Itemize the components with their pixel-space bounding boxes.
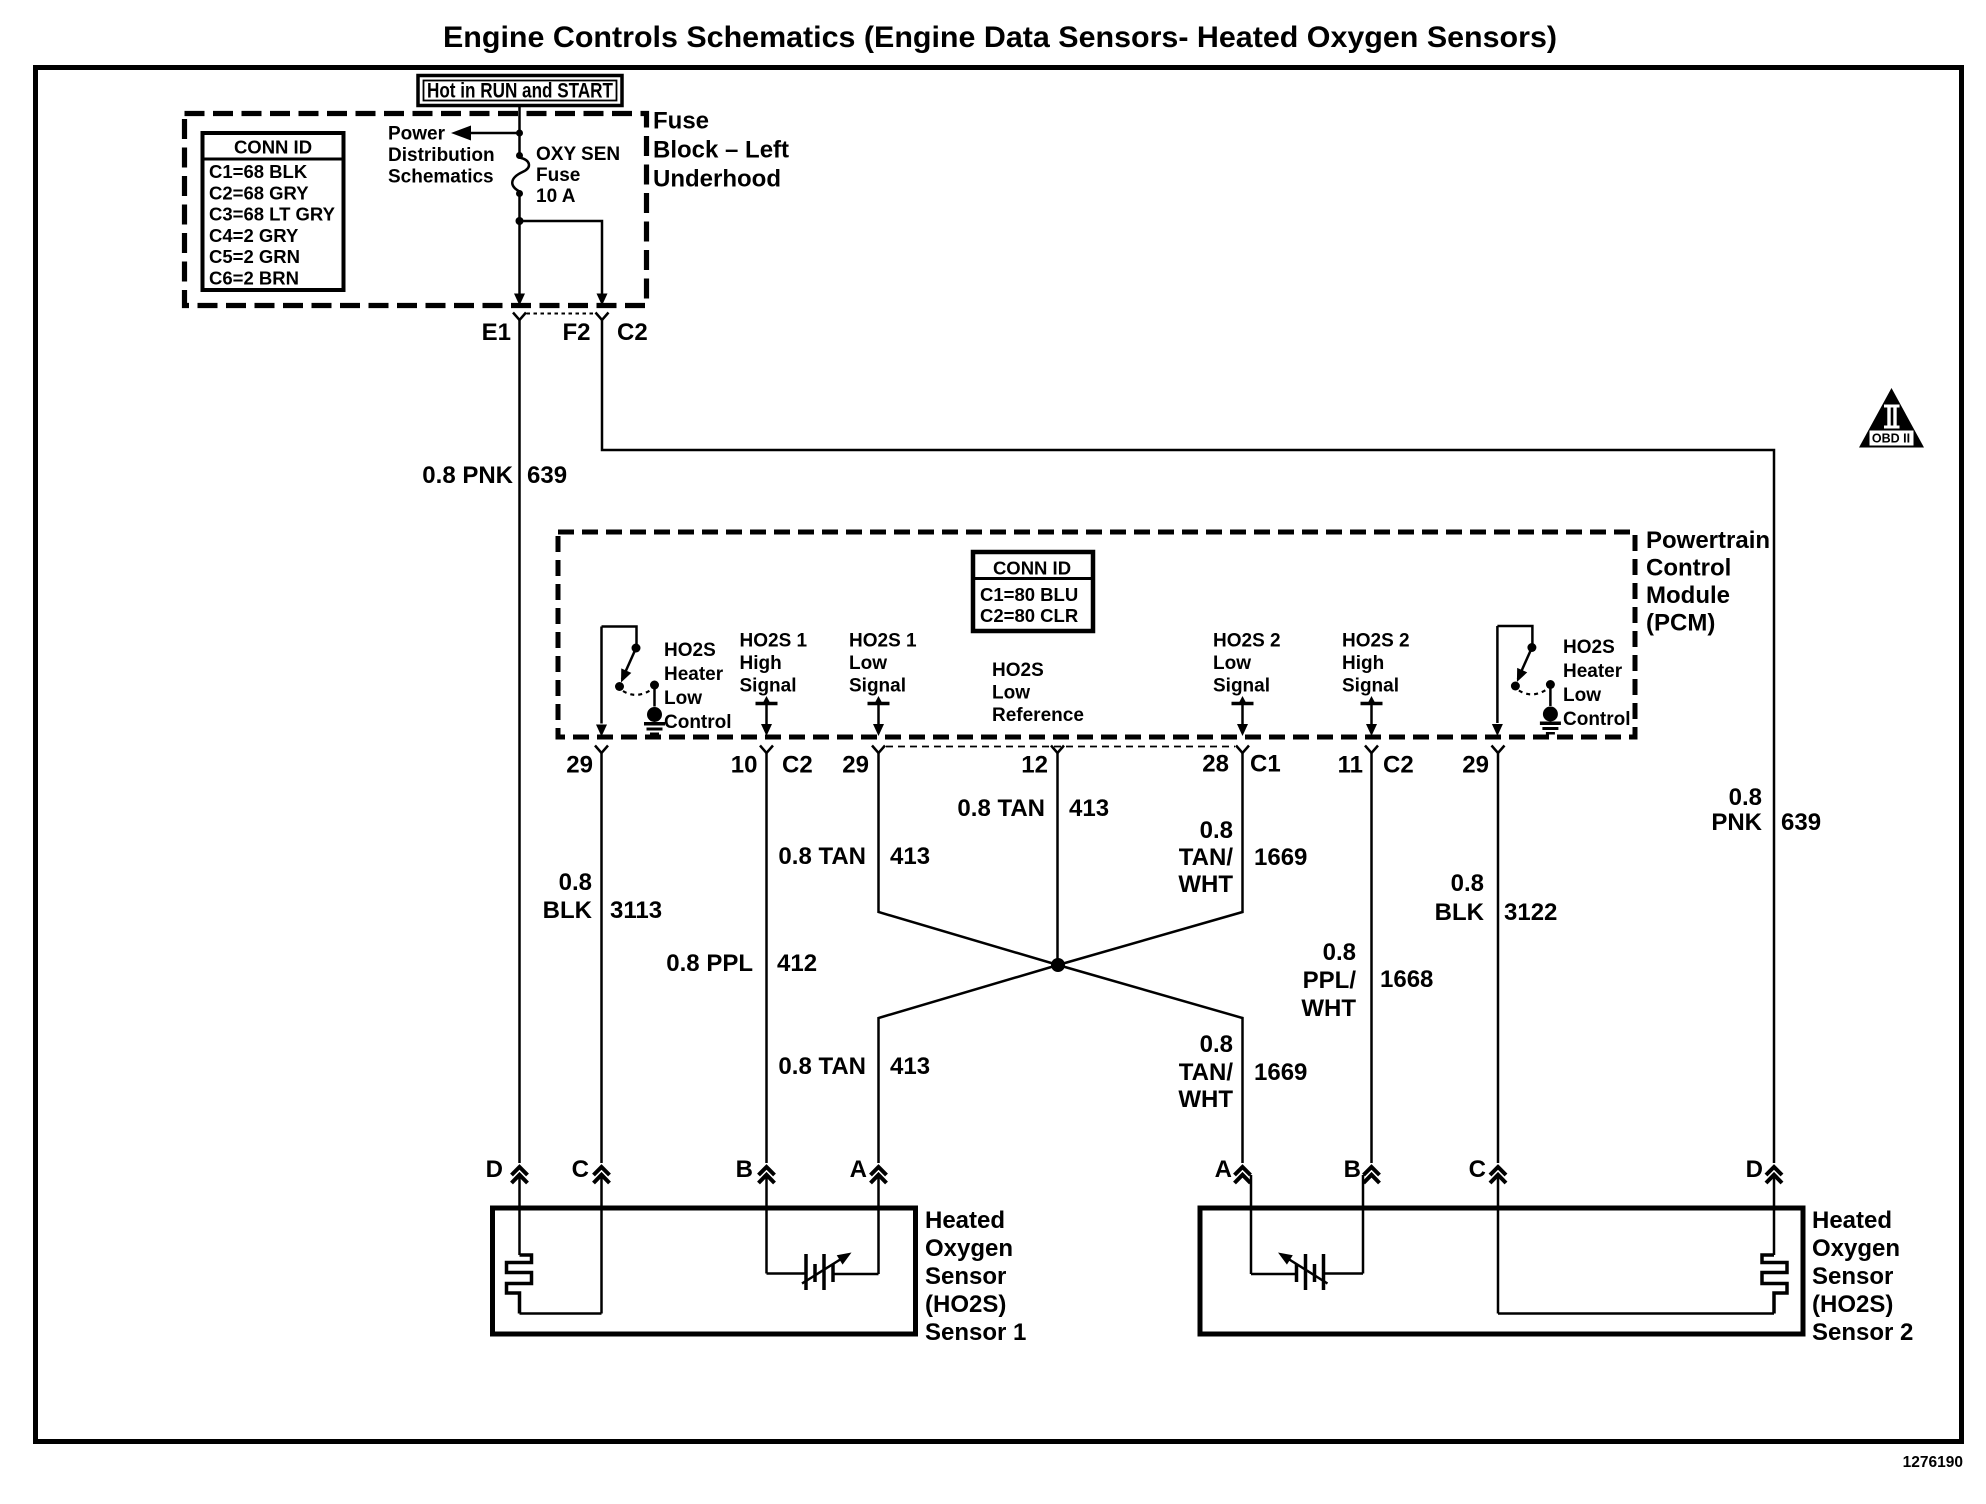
- svg-text:3122: 3122: [1504, 899, 1557, 926]
- svg-text:Low: Low: [1213, 653, 1251, 674]
- svg-text:Heated: Heated: [925, 1207, 1005, 1234]
- svg-text:HO2S: HO2S: [664, 640, 716, 661]
- svg-text:HO2S 2: HO2S 2: [1342, 631, 1410, 652]
- svg-text:C2: C2: [617, 319, 648, 346]
- svg-text:B: B: [736, 1156, 753, 1183]
- svg-text:C1: C1: [1250, 751, 1281, 778]
- svg-text:A: A: [1215, 1156, 1232, 1183]
- svg-text:High: High: [1342, 653, 1384, 674]
- svg-text:TAN/: TAN/: [1179, 844, 1234, 871]
- svg-text:C1=68 BLK: C1=68 BLK: [209, 161, 308, 182]
- svg-text:11: 11: [1338, 752, 1363, 779]
- svg-text:639: 639: [1781, 809, 1821, 836]
- svg-text:PPL/: PPL/: [1303, 967, 1357, 994]
- svg-text:0.8 PPL: 0.8 PPL: [666, 950, 753, 977]
- svg-text:BLK: BLK: [1435, 899, 1485, 926]
- svg-text:Fuse: Fuse: [536, 165, 580, 186]
- svg-text:Block – Left: Block – Left: [653, 137, 789, 164]
- svg-text:C: C: [572, 1156, 589, 1183]
- svg-text:C1=80 BLU: C1=80 BLU: [980, 584, 1078, 605]
- svg-text:0.8: 0.8: [1323, 939, 1356, 966]
- svg-text:Signal: Signal: [740, 676, 797, 697]
- svg-text:28: 28: [1202, 751, 1229, 778]
- svg-text:10: 10: [731, 752, 758, 779]
- svg-text:C3=68 LT GRY: C3=68 LT GRY: [209, 204, 336, 225]
- svg-text:1276190: 1276190: [1903, 1454, 1963, 1471]
- svg-text:F2: F2: [562, 319, 590, 346]
- svg-text:Heated: Heated: [1812, 1207, 1892, 1234]
- svg-text:413: 413: [890, 1053, 930, 1080]
- svg-text:OBD II: OBD II: [1872, 432, 1910, 446]
- svg-text:0.8 TAN: 0.8 TAN: [778, 843, 866, 870]
- svg-text:0.8: 0.8: [559, 869, 592, 896]
- svg-text:Low: Low: [1563, 685, 1601, 706]
- svg-text:D: D: [486, 1156, 503, 1183]
- svg-text:413: 413: [890, 843, 930, 870]
- svg-text:CONN ID: CONN ID: [993, 558, 1071, 579]
- svg-text:HO2S: HO2S: [992, 660, 1044, 681]
- svg-text:OXY SEN: OXY SEN: [536, 144, 620, 165]
- svg-text:Signal: Signal: [849, 676, 906, 697]
- svg-text:C2=68 GRY: C2=68 GRY: [209, 182, 309, 203]
- svg-text:BLK: BLK: [543, 897, 593, 924]
- svg-text:Low: Low: [849, 653, 887, 674]
- svg-text:Control: Control: [664, 712, 732, 733]
- svg-text:412: 412: [777, 950, 817, 977]
- svg-text:C: C: [1469, 1156, 1486, 1183]
- svg-text:TAN/: TAN/: [1179, 1059, 1234, 1086]
- svg-text:(HO2S): (HO2S): [925, 1291, 1006, 1318]
- svg-text:HO2S: HO2S: [1563, 637, 1615, 658]
- svg-text:0.8: 0.8: [1729, 784, 1762, 811]
- svg-text:Sensor 2: Sensor 2: [1812, 1319, 1913, 1346]
- svg-text:C4=2 GRY: C4=2 GRY: [209, 225, 299, 246]
- svg-text:Signal: Signal: [1213, 676, 1270, 697]
- svg-text:0.8: 0.8: [1200, 1031, 1233, 1058]
- svg-text:C2=80 CLR: C2=80 CLR: [980, 605, 1078, 626]
- svg-text:0.8 TAN: 0.8 TAN: [778, 1053, 866, 1080]
- svg-text:HO2S 1: HO2S 1: [849, 631, 917, 652]
- svg-text:C2: C2: [782, 752, 813, 779]
- svg-text:Reference: Reference: [992, 705, 1084, 726]
- svg-text:HO2S 1: HO2S 1: [740, 631, 808, 652]
- svg-text:0.8: 0.8: [1200, 817, 1233, 844]
- svg-text:(HO2S): (HO2S): [1812, 1291, 1893, 1318]
- svg-text:639: 639: [527, 462, 567, 489]
- svg-text:413: 413: [1069, 795, 1109, 822]
- svg-text:High: High: [740, 653, 782, 674]
- svg-text:Sensor 1: Sensor 1: [925, 1319, 1026, 1346]
- svg-text:Power: Power: [388, 124, 446, 145]
- svg-text:C5=2 GRN: C5=2 GRN: [209, 246, 300, 267]
- svg-text:Sensor: Sensor: [1812, 1263, 1893, 1290]
- svg-text:Heater: Heater: [664, 664, 724, 685]
- svg-text:B: B: [1344, 1156, 1361, 1183]
- svg-text:WHT: WHT: [1301, 995, 1356, 1022]
- svg-text:Signal: Signal: [1342, 676, 1399, 697]
- svg-text:0.8 TAN: 0.8 TAN: [957, 795, 1045, 822]
- svg-text:0.8: 0.8: [1451, 870, 1484, 897]
- svg-text:29: 29: [1462, 752, 1489, 779]
- svg-text:29: 29: [566, 752, 593, 779]
- svg-text:Fuse: Fuse: [653, 108, 709, 135]
- svg-text:(PCM): (PCM): [1646, 610, 1715, 637]
- svg-text:0.8 PNK: 0.8 PNK: [422, 462, 513, 489]
- svg-text:Control: Control: [1646, 555, 1731, 582]
- svg-text:Hot in RUN and START: Hot in RUN and START: [427, 80, 613, 103]
- svg-text:Control: Control: [1563, 709, 1631, 730]
- svg-text:Low: Low: [664, 688, 702, 709]
- svg-text:10 A: 10 A: [536, 186, 576, 207]
- svg-text:Low: Low: [992, 683, 1030, 704]
- svg-text:C6=2 BRN: C6=2 BRN: [209, 268, 299, 289]
- svg-text:E1: E1: [482, 319, 511, 346]
- svg-text:Engine Controls Schematics (En: Engine Controls Schematics (Engine Data …: [443, 21, 1557, 54]
- svg-text:D: D: [1746, 1156, 1763, 1183]
- svg-text:PNK: PNK: [1711, 809, 1762, 836]
- svg-text:Heater: Heater: [1563, 661, 1623, 682]
- svg-text:Powertrain: Powertrain: [1646, 527, 1770, 554]
- svg-text:12: 12: [1021, 752, 1048, 779]
- svg-text:1669: 1669: [1254, 1059, 1307, 1086]
- svg-text:1668: 1668: [1380, 966, 1433, 993]
- svg-text:29: 29: [842, 752, 869, 779]
- svg-text:A: A: [850, 1156, 867, 1183]
- svg-text:C2: C2: [1383, 752, 1414, 779]
- svg-text:HO2S 2: HO2S 2: [1213, 631, 1281, 652]
- svg-text:3113: 3113: [610, 897, 662, 924]
- svg-text:Oxygen: Oxygen: [925, 1235, 1013, 1262]
- svg-text:WHT: WHT: [1178, 871, 1233, 898]
- svg-text:Module: Module: [1646, 582, 1730, 609]
- svg-text:Sensor: Sensor: [925, 1263, 1006, 1290]
- svg-text:CONN ID: CONN ID: [234, 137, 312, 158]
- svg-text:Schematics: Schematics: [388, 167, 494, 188]
- svg-text:Oxygen: Oxygen: [1812, 1235, 1900, 1262]
- svg-text:WHT: WHT: [1178, 1086, 1233, 1113]
- svg-text:1669: 1669: [1254, 844, 1307, 871]
- svg-text:Underhood: Underhood: [653, 166, 781, 193]
- svg-text:Distribution: Distribution: [388, 145, 495, 166]
